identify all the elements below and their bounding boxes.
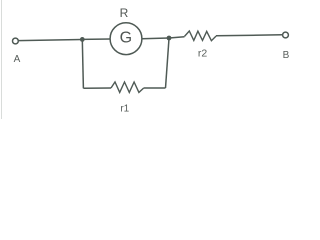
junction dot left node xyxy=(80,37,85,42)
svg-text:B: B xyxy=(283,50,290,61)
svg-text:G: G xyxy=(120,30,132,47)
wire left junction to galvanometer xyxy=(82,38,110,40)
wire left junction down to bottom branch xyxy=(82,39,83,88)
wire right junction to resistor r2 xyxy=(169,37,185,38)
galvanometer U1 G xyxy=(110,23,142,55)
resistor r2 xyxy=(185,31,217,41)
svg-text:r2: r2 xyxy=(198,48,207,60)
page edge line xyxy=(1,0,3,119)
wire r2 to terminal B xyxy=(216,35,283,36)
wire A to left junction xyxy=(18,40,82,41)
resistor r1 xyxy=(111,82,144,92)
wire bottom left to resistor r1 xyxy=(83,87,111,89)
terminal B xyxy=(283,32,289,38)
svg-text:r1: r1 xyxy=(120,103,129,114)
svg-text:A: A xyxy=(14,54,21,65)
junction dot right node xyxy=(167,36,172,41)
wire bottom right up to right junction xyxy=(166,39,170,89)
svg-text:R: R xyxy=(120,6,129,20)
wire resistor r1 to bottom right xyxy=(144,87,166,89)
terminal A xyxy=(13,38,19,44)
wire galvanometer to right junction xyxy=(142,37,169,40)
